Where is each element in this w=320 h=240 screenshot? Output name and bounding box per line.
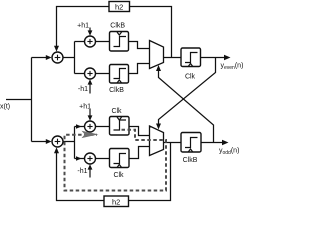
wire A1 to split (top) (63, 57, 75, 59)
wire Q3 to MUX2 (129, 127, 150, 136)
wire bottom split vertical (74, 127, 76, 159)
arrowheads (46, 46, 231, 161)
wire top split vertical (74, 42, 76, 74)
svg-text:ClkB: ClkB (183, 157, 198, 164)
cross wire y_odd tap to MUX1 select (159, 70, 214, 143)
svg-text:-h1: -h1 (77, 168, 87, 175)
wire M2 to Q2 (96, 73, 110, 75)
wire split to M4 (75, 158, 85, 160)
svg-text:Clk: Clk (111, 108, 122, 115)
svg-text:Clk: Clk (113, 172, 124, 179)
gray flow arrow on dashed loop (82, 131, 99, 138)
svg-text:-h1: -h1 (78, 86, 88, 93)
svg-text:x(t): x(t) (0, 103, 10, 110)
feedback h2 top wire (130, 7, 172, 58)
wire split to M2 (75, 73, 85, 75)
wire S1 output (201, 57, 229, 59)
arrow into A2 (46, 139, 52, 144)
wire MUX2 output to S2 (164, 142, 182, 144)
gain block h2 (bottom) (104, 196, 129, 207)
wire MUX1 output to S1 (164, 57, 182, 59)
mux MUX2 (150, 126, 164, 156)
adder A2 (bottom summer) (52, 136, 63, 147)
arrow h2 bottom into A2 (54, 147, 59, 153)
svg-text:Clk: Clk (185, 73, 196, 80)
sampler S1 (Clk) (181, 48, 201, 67)
svg-text:h2: h2 (112, 197, 120, 206)
wire Q2 to MUX1 (129, 64, 150, 74)
wire into adder A1 (32, 57, 47, 59)
wire A2 to split (bottom) (63, 141, 75, 143)
arrow split to M4 (76, 156, 82, 161)
wire M4 to Q4 (96, 158, 110, 160)
wire S2 output (201, 142, 226, 144)
arrow MUX1 select (156, 65, 161, 71)
wire M3 to Q3 (96, 126, 110, 128)
wire Q4 to MUX2 (129, 147, 150, 159)
cross wire y_even tap to MUX2 select (159, 58, 216, 126)
wire split to M3 (75, 126, 85, 128)
svg-text:+h1: +h1 (77, 22, 89, 29)
wire input x(t) (6, 99, 32, 101)
svg-text:ClkB: ClkB (109, 87, 124, 94)
svg-text:h2: h2 (115, 2, 123, 11)
wire into adder A2 (32, 141, 47, 143)
multiplier M3 (85, 121, 96, 132)
wire split to M1 (75, 41, 85, 43)
quantizer Q1 (ClkB, top path upper) (110, 32, 129, 52)
arrow MUX2 select (156, 124, 161, 130)
svg-text:ClkB: ClkB (110, 23, 125, 30)
multiplier M4 (85, 153, 96, 164)
arrow split to M3 (76, 124, 82, 129)
quantizer Q4 (Clk, bottom path lower) (110, 149, 130, 168)
feedback h2 bottom wire (129, 143, 171, 201)
arrow y_odd output (222, 140, 229, 145)
arrow into A1 (46, 55, 52, 60)
quantizer Q3 (Clk, bottom path upper) (110, 117, 130, 136)
mux MUX1 (150, 41, 164, 69)
arrow y_even output (224, 55, 231, 60)
adder A1 (top summer) (52, 52, 63, 63)
wire input trunk vertical (31, 58, 33, 142)
arrow h2 top into A1 (54, 46, 59, 52)
svg-text:+h1: +h1 (79, 104, 91, 111)
wire M1 to Q1 (96, 41, 110, 43)
gain block h2 (top) (109, 2, 130, 12)
wire Q1 to MUX1 (129, 42, 150, 49)
multiplier M2 (85, 68, 96, 79)
dashed minimum-delay loop (65, 130, 167, 191)
quantizer Q2 (ClkB, top path lower) (110, 65, 129, 84)
sampler S2 (ClkB) (181, 133, 201, 153)
multiplier M1 (85, 36, 96, 47)
